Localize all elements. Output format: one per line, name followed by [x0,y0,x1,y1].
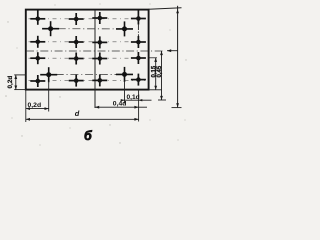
hole cross r2c4 [131,36,146,48]
row 1 centerline [29,18,147,20]
hole cross r1c3 [92,12,107,24]
column 4 center segment between rows 1-2 [137,24,139,36]
plate outline [26,10,149,90]
hole cross r3c3 [92,53,107,65]
hole cross r4c4 [131,74,146,86]
extension line from plate left bottom corner [25,90,27,122]
dimension d [26,118,139,120]
center line right arrow [167,50,178,52]
dimension 0,15 (right, vertical) [155,58,157,90]
hole cross r4c2 [69,75,84,87]
bottom edge extension right [149,89,162,91]
extension line from column 4 [138,90,140,122]
dimension 0,2d (left side, vertical) [15,75,17,90]
hole cross r2c2 [69,36,84,48]
row 3 centerline [29,57,147,59]
svg-text:0,1d: 0,1d [127,94,140,101]
offset hole cross B (upper-right) [116,21,133,36]
offset hole row centerline upper [43,28,132,30]
hole cross r2c3 [92,36,107,48]
vertical center grid line [94,10,96,108]
hole cross r1c1 [30,10,45,24]
hole cross r2c1 [30,36,45,48]
dimension 0,45 (right, vertical) [161,51,163,100]
svg-text:0,2d: 0,2d [28,102,42,109]
top edge extension line [149,8,182,10]
lower hole row extension left [14,74,26,76]
row 3 extension right tick [149,57,157,59]
hole cross r4c3 [92,74,107,86]
hole cross r3c4 [131,52,146,64]
svg-text:0,4d: 0,4d [113,100,127,107]
dimension 0,2d (bottom left) [26,108,49,110]
tall right dimension line [177,6,179,108]
hole cross r1c2 [69,13,84,25]
dimension 0,4d [95,106,147,108]
hole cross r3c2 [69,53,84,65]
svg-text:0,2d: 0,2d [7,76,14,89]
dimension 0,1d [121,99,152,101]
bottom edge extension left [14,89,26,91]
offset hole cross D (lower-right) [116,67,133,82]
tick at y=101 right side [158,99,166,101]
hole cross r1c4 [131,10,146,24]
tick at bottom of tall dimension [172,107,182,109]
svg-text:б: б [84,129,93,143]
hole cross r3c1 [30,52,45,64]
extension line from offset hole D [124,81,126,104]
offset hole cross A (upper-left) [42,21,59,36]
horizontal center grid line [26,50,163,52]
hole cross r4c1 [30,75,45,87]
row 2 centerline [29,41,147,43]
svg-text:d: d [75,109,80,118]
svg-text:0,45: 0,45 [157,65,163,77]
scan speckle texture [5,3,187,145]
row 4 centerline [29,80,147,82]
extension line from offset hole C [48,81,50,112]
offset hole row centerline lower [41,73,132,75]
offset hole cross C (lower-left) [40,67,57,82]
